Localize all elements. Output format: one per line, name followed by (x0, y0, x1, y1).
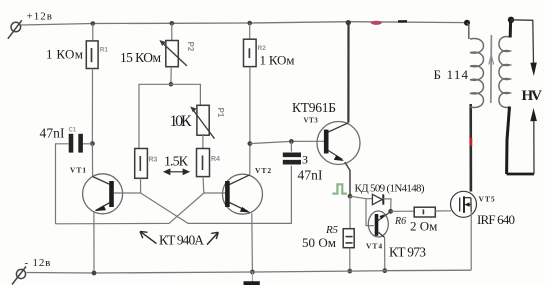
wire R1 top lead (92, 24, 94, 41)
label KT 940A with arrows (140, 231, 218, 247)
transformer core (489, 35, 494, 103)
resistor R5 (343, 229, 354, 248)
transformer T1 secondary winding (499, 37, 510, 108)
svg-text:47nI: 47nI (298, 167, 324, 182)
svg-text:R6: R6 (394, 216, 406, 227)
wire VT4 base branch (366, 199, 374, 226)
wire HV bottom lead with up arrow (507, 108, 537, 174)
wire R4 bottom to VT2 base corner (202, 177, 205, 193)
svg-text:15 КОм: 15 КОм (120, 50, 161, 65)
svg-text:- 12в: - 12в (25, 257, 52, 269)
transistor VT4 (368, 211, 390, 238)
node secondary top (508, 17, 514, 23)
wire VT5 source to rail (470, 212, 472, 271)
node C1 / R1 / VT1 collector (90, 141, 95, 146)
wire node to R3 top (139, 84, 171, 148)
node top rail junction R1 (91, 21, 96, 26)
svg-text:HV: HV (522, 88, 543, 104)
svg-text:50 Ом: 50 Ом (302, 235, 336, 250)
svg-text:47nI: 47nI (40, 125, 66, 140)
terminal +12V input (8, 20, 22, 39)
node R5 at rail (347, 269, 352, 274)
svg-text:КТ 973: КТ 973 (389, 245, 426, 260)
red mark on drain wire (469, 138, 472, 146)
wire VT1 base lead (114, 192, 141, 194)
trimmer P2 (159, 40, 187, 67)
svg-text:Р2: Р2 (186, 42, 195, 52)
svg-text:R3: R3 (149, 157, 158, 164)
node VT4 collector at rail (382, 268, 387, 273)
wire R2 bottom to node (249, 67, 251, 144)
node transformer primary top (464, 20, 470, 26)
resistor R3 (135, 149, 148, 179)
svg-text:1 КОм: 1 КОм (46, 47, 83, 62)
wire diode cathode to node (383, 199, 391, 211)
svg-text:КД 509 (1N4148): КД 509 (1N4148) (355, 183, 425, 195)
node top rail junction R2 (247, 21, 252, 26)
wire bottom rail (27, 270, 472, 273)
wire VT3 emitter down (345, 162, 350, 196)
wire R5 bottom to rail (349, 248, 351, 271)
wire VT3 collector thick to top rail (347, 22, 349, 122)
transistor VT2 (223, 174, 263, 214)
ground (244, 272, 260, 283)
wire P2 top lead (171, 23, 173, 40)
svg-text:КТ 940А: КТ 940А (159, 233, 204, 248)
svg-text:VТ3: VТ3 (304, 117, 319, 125)
wire coupling diagonal VT1 base to C3 (141, 166, 292, 224)
potentiometer P1 (190, 105, 214, 138)
wire secondary bottom thick (507, 107, 510, 175)
node C3 top (289, 139, 294, 144)
resistor R6 (414, 207, 435, 217)
capacitor C3 (283, 155, 301, 162)
node VT2 emitter at rail (250, 270, 255, 275)
wire secondary top thick (509, 20, 512, 38)
wire R6 to VT5 gate (435, 210, 451, 212)
svg-text:C1: C1 (69, 128, 77, 134)
wire R1 bottom to node (91, 69, 93, 144)
wire top rail (21, 22, 467, 25)
svg-text:Б 114: Б 114 (434, 67, 469, 82)
wire primary top lead (467, 23, 469, 39)
wire coupling line C1 to VT2 base (56, 193, 226, 224)
svg-text:VТ5: VТ5 (479, 195, 496, 204)
capacitor C1 (71, 134, 81, 153)
svg-text:10К: 10К (170, 113, 192, 130)
wire VT2 collector up to node (249, 144, 251, 175)
wire C1 left plate down to coupling line (56, 144, 69, 224)
svg-text:VТ2: VТ2 (255, 166, 272, 175)
transistor VT1 (83, 174, 123, 214)
svg-text:IRF 640: IRF 640 (477, 212, 515, 227)
resistor R1 (86, 41, 98, 69)
wire VT4 collector to bottom rail (384, 238, 386, 271)
wire VT5 drain thick (469, 104, 472, 192)
wire R2 top (249, 23, 251, 39)
svg-text:З: З (302, 153, 308, 167)
wire C1 right plate to node (83, 143, 92, 145)
terminal -12V input (12, 267, 26, 285)
node VT2 collector / R2 / C3 (248, 141, 253, 146)
transistor VT5 MOSFET (451, 191, 477, 217)
wire node to VT1 collector (91, 144, 93, 177)
transformer T1 B114 primary winding (470, 39, 484, 108)
svg-text:R1: R1 (100, 47, 109, 54)
svg-text:VТ4: VТ4 (366, 242, 383, 251)
black dash on top rail (398, 20, 407, 23)
svg-text:R4: R4 (211, 156, 220, 163)
symbol double arrow under 1.5K (164, 169, 188, 174)
node VT1 emitter at rail (92, 271, 97, 276)
svg-text:R5: R5 (325, 224, 339, 236)
wire C3 top lead (290, 141, 292, 151)
wire R3 bottom to VT1 base corner (140, 178, 142, 193)
svg-text:КТ961Б: КТ961Б (292, 100, 336, 115)
wire node to R6 (391, 210, 415, 212)
wire node to diode anode (350, 196, 372, 199)
resistor R2 (244, 39, 257, 66)
node P2 bottom junction (169, 82, 174, 87)
resistor R4 (197, 149, 210, 177)
symbol green pulse waveform (332, 184, 347, 193)
wire P2 bottom to node (170, 67, 172, 85)
svg-text:1 КОм: 1 КОм (260, 53, 295, 68)
wire node to P1 top (171, 84, 201, 105)
node top rail junction VT3 collector (346, 20, 351, 25)
wire R5 top lead (349, 196, 351, 229)
wire HV top lead with down arrow (511, 20, 537, 76)
wire P1 bottom to R4 top (202, 135, 204, 148)
diode VD1 KD509 (372, 194, 383, 204)
svg-text:2 Ом: 2 Ом (410, 219, 437, 234)
svg-text:R2: R2 (258, 45, 267, 52)
wire VT1 emitter down to bottom rail (93, 212, 95, 274)
svg-text:VТ1: VТ1 (70, 166, 87, 175)
svg-text:1.5К: 1.5К (164, 154, 189, 169)
node VT3 emitter junction (348, 194, 353, 199)
wire VT2 emitter to bottom rail (251, 213, 254, 272)
svg-text:+12в: +12в (27, 11, 53, 23)
transistor VT3 (317, 122, 360, 165)
red mark on top rail (371, 21, 382, 25)
svg-text:Р1: Р1 (216, 108, 225, 118)
node diode cathode / VT4 emitter / R6 (388, 209, 393, 214)
node top rail junction P2 (170, 21, 175, 26)
wire node to VT3 base (250, 141, 324, 143)
